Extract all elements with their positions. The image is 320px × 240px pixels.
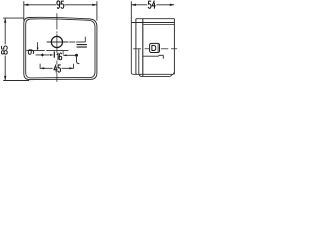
dimension 9 label (rotated): [28, 50, 33, 54]
dimension 95 arrow left: [24, 4, 29, 6]
ledge notch side: [162, 55, 164, 58]
side view bottom inner edge: [142, 75, 171, 77]
bulb socket box: [150, 43, 160, 52]
bulb socket label D: [152, 45, 156, 50]
right leader extension tick: [62, 51, 64, 55]
dimension 95 extension line left: [23, 1, 25, 20]
right stud leader line: [63, 54, 76, 56]
dimension 45 label: [54, 65, 57, 72]
vertical centerline of front view: [56, 13, 58, 29]
side view flange band lower line: [143, 24, 174, 26]
dimension 9 arrow: [37, 48, 39, 51]
symmetry mark upper bar: [77, 44, 87, 45]
mounting hole circle: [51, 36, 62, 47]
dimension 85 extension line bottom: [3, 80, 29, 82]
dimension 85 arrow down: [4, 76, 6, 81]
dimension 54 line: [132, 4, 148, 6]
inner line near box right edge: [157, 44, 159, 52]
dimension 95 label: [57, 1, 60, 8]
right stud leader arrow: [63, 54, 66, 56]
dimension 95 line: [24, 4, 56, 6]
side view lens/housing joint: [142, 19, 144, 76]
side view bottom inner bevel: [170, 74, 172, 76]
side view top edge: [136, 18, 175, 20]
dimension 45 tick right: [73, 64, 75, 69]
dimension 54 arrow right: [170, 4, 175, 6]
ledge notch join: [158, 54, 160, 57]
front view inner outline: [26, 19, 95, 78]
stud bar: [54, 51, 55, 57]
right stud dot: [75, 54, 78, 57]
inner horizontal edge line: [26, 50, 44, 52]
side view housing interior ledge: [143, 55, 159, 57]
dimension 54 arrow left: [131, 4, 136, 6]
dimension 16 arrow: [50, 54, 54, 56]
symmetry mark lower bar: [77, 47, 87, 48]
dimension 85 extension line top: [3, 17, 23, 19]
ledge notch top: [159, 54, 164, 56]
right stud tail: [77, 57, 80, 64]
leader line to centerline: [84, 37, 86, 42]
dimension 95 arrow right: [92, 4, 97, 6]
dimension 95 extension line right: [96, 1, 98, 20]
side view bottom right bevel: [173, 72, 174, 74]
dimension 9 line: [37, 42, 39, 49]
dimension 54 extension line left: [130, 1, 132, 22]
dimension 45 tick left: [39, 64, 41, 69]
dimension 16 line left: [36, 54, 50, 56]
side view back edge: [173, 19, 175, 75]
hole horizontal centerline: [47, 41, 69, 43]
dimension 16 label: [57, 53, 58, 60]
centerline tick across back edge: [171, 48, 177, 50]
side view flange front edge: [131, 22, 133, 74]
stud diamond marker: [41, 53, 44, 56]
side view bottom edge: [134, 73, 174, 75]
dimension 45 line: [40, 67, 53, 69]
dimension 45 arrow right: [69, 67, 73, 69]
side view flange top: [131, 22, 174, 24]
dimension 85 label (rotated): [1, 46, 7, 54]
side view lens front edge: [136, 19, 137, 75]
dimension 85 arrow up: [4, 18, 6, 23]
dimension 54 label: [148, 1, 151, 8]
dimension 45 arrow left: [40, 67, 44, 69]
dimension 85 line: [4, 18, 6, 44]
side view inner front line: [139, 49, 142, 77]
side view horizontal centerline dashes: [133, 48, 141, 50]
front view outer outline: [24, 17, 97, 79]
